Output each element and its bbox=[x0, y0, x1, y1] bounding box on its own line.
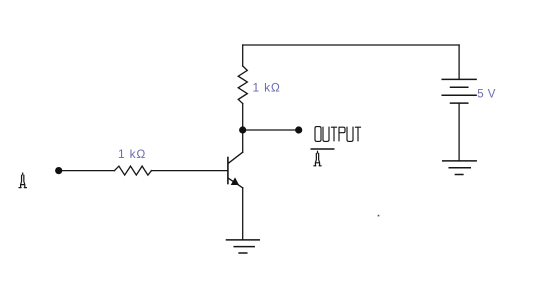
wire from top rail to resistor R2 bbox=[242, 45, 244, 66]
wire top rail to battery V1 bbox=[458, 45, 460, 79]
wire input A to resistor R1 bbox=[59, 170, 115, 172]
wire battery V1 negative to ground bbox=[458, 103, 460, 161]
wire from R2 to node N1 bbox=[242, 104, 244, 131]
wire resistor R1 to base of Q1 bbox=[152, 170, 228, 172]
resistor R1 (1 kOhm base resistor) bbox=[115, 166, 152, 175]
overline of output net A-bar bbox=[311, 148, 335, 150]
label A of output net A-bar bbox=[314, 151, 321, 166]
svg-text:1 kΩ: 1 kΩ bbox=[118, 147, 146, 161]
label OUTPUT bbox=[315, 127, 361, 142]
node dot input A terminal bbox=[55, 167, 62, 174]
node dot output terminal bbox=[295, 126, 302, 133]
ground symbol below Q1 emitter bbox=[227, 240, 260, 253]
svg-text:1 kΩ: 1 kΩ bbox=[253, 80, 281, 94]
node dot N1 (collector node) bbox=[239, 126, 246, 133]
label A of input net bbox=[19, 173, 26, 188]
ground symbol below battery V1 bbox=[443, 161, 477, 175]
svg-text:5 V: 5 V bbox=[477, 89, 495, 101]
transistor Q1 emitter arrow bbox=[231, 178, 238, 184]
transistor Q1 emitter lead bbox=[228, 178, 242, 188]
wire emitter of Q1 to ground bbox=[242, 188, 244, 240]
wire top VCC rail bbox=[243, 44, 459, 46]
stray speck artifact bbox=[378, 215, 380, 217]
wire from node N1 to collector of Q1 bbox=[242, 130, 244, 152]
resistor R2 (1 kOhm collector pull-up) bbox=[238, 66, 247, 104]
battery V1 (5 V) plates bbox=[442, 79, 476, 103]
transistor Q1 collector lead bbox=[228, 152, 242, 163]
wire node N1 to output terminal bbox=[243, 129, 299, 131]
transistor Q1 base bar bbox=[227, 158, 229, 184]
